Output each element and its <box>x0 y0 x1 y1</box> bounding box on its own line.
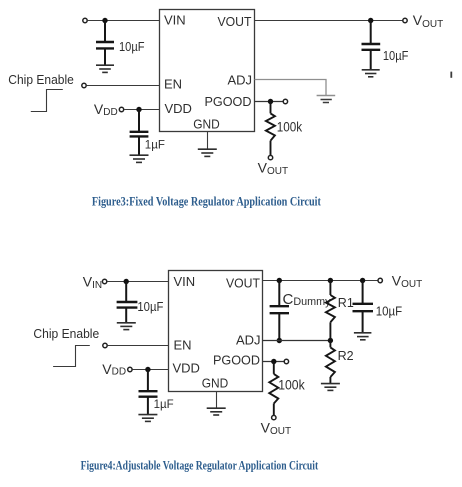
junction input/C1 <box>102 18 107 23</box>
svg-text:GND: GND <box>202 376 229 391</box>
wire PGOOD pin to pull-down <box>255 101 284 103</box>
svg-text:VIN: VIN <box>164 13 186 28</box>
capacitor C2 1uF (VDD) <box>130 110 149 155</box>
svg-text:100k: 100k <box>277 120 303 135</box>
junction VOUT/C6 <box>360 278 365 283</box>
regulator IC U1 body <box>160 10 255 132</box>
capacitor Cdummy <box>270 281 289 341</box>
svg-text:VOUT: VOUT <box>413 12 443 30</box>
svg-text:10µF: 10µF <box>376 304 402 319</box>
svg-text:ADJ: ADJ <box>236 333 261 348</box>
capacitor C5 1uF (bottom) <box>139 370 158 415</box>
svg-text:VDD: VDD <box>173 361 200 376</box>
capacitor C6 10uF (output, bottom) <box>353 281 374 333</box>
svg-text:Figure4:Adjustable Voltage Reg: Figure4:Adjustable Voltage Regulator App… <box>81 458 319 472</box>
resistor R1 <box>326 281 335 341</box>
svg-text:R1: R1 <box>338 296 354 310</box>
svg-text:PGOOD: PGOOD <box>205 94 252 109</box>
junction Cdummy/ADJ <box>277 338 282 343</box>
wire GND pin down (bottom) <box>216 392 218 408</box>
ground symbol (C1) <box>96 65 114 72</box>
ground symbol (ADJ) <box>317 96 336 103</box>
svg-text:R2: R2 <box>338 349 354 363</box>
regulator IC U2 body <box>169 271 263 392</box>
junction VDD/C5 <box>145 367 150 372</box>
svg-text:VDD: VDD <box>94 101 118 118</box>
junction VOUT/Cdummy <box>277 278 282 283</box>
ground symbol (C6) <box>354 333 372 340</box>
junction VDD/C2 <box>136 107 141 112</box>
capacitor C4 10uF (input, bottom) <box>117 282 138 323</box>
wire input to VIN pin <box>88 20 160 22</box>
svg-text:10µF: 10µF <box>137 299 163 314</box>
resistor 100k (top circuit) <box>266 102 275 156</box>
wire VDD terminal to VDD pin (bottom) <box>133 369 169 371</box>
stray tick mark <box>450 72 452 78</box>
step waveform icon (top circuit) <box>31 90 63 112</box>
wire ADJ pin to divider (bottom) <box>263 340 331 342</box>
EN terminal (top circuit) <box>82 83 86 87</box>
wire ADJ pin to ground (gray) <box>255 80 327 96</box>
svg-text:VOUT: VOUT <box>226 276 260 291</box>
ground symbol (R2) <box>321 384 340 391</box>
junction PGOOD/100k (bottom) <box>271 359 276 364</box>
wire VDD terminal to VDD pin <box>124 109 159 111</box>
wire VOUT pin to output terminal (bottom) <box>263 280 378 282</box>
PGOOD terminal (top circuit) <box>283 99 287 103</box>
svg-text:EN: EN <box>164 77 182 92</box>
wire input to VIN pin (bottom) <box>107 281 168 283</box>
junction PGOOD/R <box>268 99 273 104</box>
svg-text:GND: GND <box>193 117 220 132</box>
svg-text:VIN: VIN <box>174 274 196 289</box>
wire VOUT pin to output terminal <box>255 20 403 22</box>
wire PGOOD pin to pull-down (bottom) <box>263 361 285 363</box>
junction VOUT/C3 <box>368 18 373 23</box>
step waveform icon (bottom circuit) <box>53 346 90 367</box>
resistor R2 <box>326 341 335 384</box>
input terminal (bottom circuit) <box>102 279 106 283</box>
svg-text:PGOOD: PGOOD <box>213 353 260 368</box>
svg-text:Chip Enable: Chip Enable <box>8 72 74 87</box>
junction input/C4 <box>124 279 129 284</box>
EN terminal (bottom circuit) <box>103 343 107 347</box>
VOUT pull terminal (bottom circuit) <box>272 415 276 419</box>
svg-text:ADJ: ADJ <box>227 73 252 88</box>
svg-text:1µF: 1µF <box>154 399 174 411</box>
svg-text:VOUT: VOUT <box>261 419 291 437</box>
VDD terminal (top circuit) <box>119 107 123 111</box>
wire EN terminal to EN pin <box>87 85 160 87</box>
output terminal (bottom circuit) <box>378 278 382 282</box>
capacitor C3 10uF (output) <box>362 21 381 70</box>
output terminal (top circuit) <box>403 18 407 22</box>
PGOOD terminal (bottom circuit) <box>284 359 288 363</box>
capacitor C1 10uF (input) <box>96 21 114 65</box>
ground symbol (C2) <box>130 155 149 162</box>
svg-text:VDD: VDD <box>165 101 192 116</box>
svg-text:10µF: 10µF <box>119 39 145 54</box>
svg-text:VIN: VIN <box>83 274 102 291</box>
VOUT pull terminal (top circuit) <box>268 155 272 159</box>
svg-text:CDummy: CDummy <box>283 291 332 308</box>
svg-text:EN: EN <box>174 338 192 353</box>
VDD terminal (bottom circuit) <box>128 367 132 371</box>
junction ADJ/R1/R2 <box>328 338 333 343</box>
wire GND pin down <box>207 132 209 149</box>
ground symbol (GND pin, bottom circuit) <box>207 408 226 415</box>
svg-text:Figure3:Fixed Voltage Regulato: Figure3:Fixed Voltage Regulator Applicat… <box>92 194 322 208</box>
ground symbol (C3) <box>362 70 380 77</box>
ground symbol (GND pin, top circuit) <box>198 149 217 156</box>
svg-text:VOUT: VOUT <box>392 272 422 290</box>
svg-text:VDD: VDD <box>102 361 126 378</box>
ground symbol (C4) <box>117 323 136 330</box>
resistor 100k (bottom circuit) <box>269 362 278 416</box>
svg-text:1µF: 1µF <box>145 139 165 151</box>
ground symbol (C5) <box>138 415 157 422</box>
wire EN terminal to EN pin (bottom) <box>108 345 169 347</box>
svg-text:Chip Enable: Chip Enable <box>33 326 99 341</box>
svg-text:10µF: 10µF <box>383 48 409 63</box>
junction VOUT/R1 <box>328 278 333 283</box>
svg-text:VOUT: VOUT <box>218 14 252 29</box>
svg-text:100k: 100k <box>278 378 305 393</box>
input terminal (top circuit) <box>83 18 87 22</box>
svg-text:VOUT: VOUT <box>258 159 288 177</box>
